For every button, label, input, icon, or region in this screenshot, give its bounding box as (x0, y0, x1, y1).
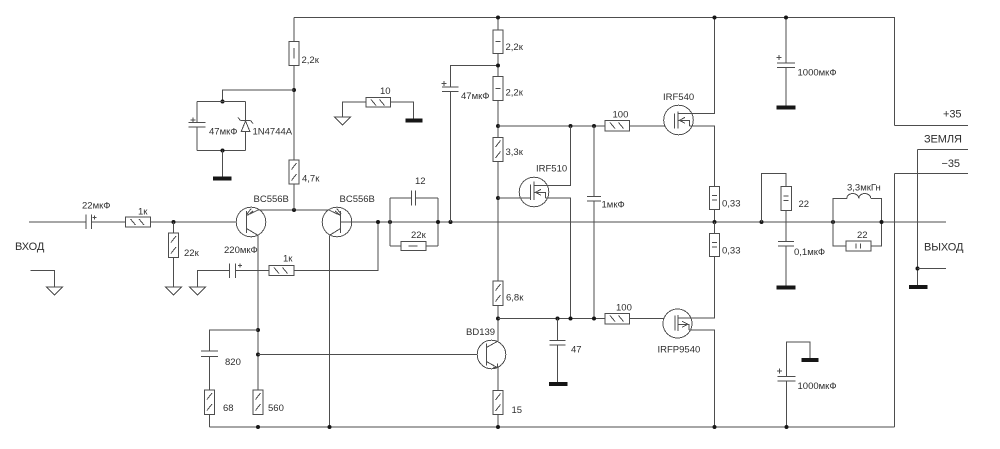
node zobel junction (760, 220, 764, 224)
svg-text:ВЫХОД: ВЫХОД (924, 242, 964, 254)
wire Q2 collector (329, 235, 331, 427)
node 1мкФ top tap (592, 124, 596, 128)
wire zener box loop (197, 102, 246, 151)
svg-text:1000мкФ: 1000мкФ (798, 68, 837, 79)
wire BD139 base (258, 354, 487, 356)
resistor 22 zobel (781, 187, 809, 211)
svg-text:BD139: BD139 (466, 327, 495, 338)
transistor Q5 BD139 (466, 327, 506, 369)
wire 498 chain top (497, 18, 499, 31)
svg-text:1к: 1к (283, 254, 293, 265)
wire 68 to bottom rail (209, 415, 211, 428)
resistor 68 (205, 390, 234, 415)
svg-text:15: 15 (512, 405, 523, 416)
resistor 2,2к lower (493, 77, 524, 101)
wire 820 stub (210, 330, 259, 351)
inductor 3,3мкГн (833, 183, 882, 223)
node 47мкФ riser junction (449, 220, 453, 224)
node 15 bottom rail (496, 425, 500, 429)
wire zobel riser (762, 174, 787, 223)
wire between 2,2к resistors (497, 54, 499, 77)
wire 15 to bottom rail (497, 415, 499, 428)
wire bottom -35 rail (210, 426, 895, 428)
resistor 2,2к upper (493, 30, 524, 54)
svg-text:220мкФ: 220мкФ (224, 245, 258, 256)
node -35 terminal line (895, 173, 969, 175)
svg-text:47мкФ: 47мкФ (209, 127, 237, 138)
svg-text:22мкФ: 22мкФ (82, 201, 110, 212)
wire ground rail vertical (917, 150, 919, 286)
node RC combo left (388, 220, 392, 224)
wire 22к to ground (173, 258, 175, 288)
capacitor 12 (390, 176, 438, 206)
wire 4,7к to emitter rail (293, 184, 295, 210)
node 820 tap (256, 328, 260, 332)
svg-text:2,2к: 2,2к (506, 42, 524, 53)
resistor 1к input (126, 207, 151, 228)
resistor 1к feedback (269, 254, 294, 276)
node output ground junction (916, 267, 920, 271)
node inductor right (880, 220, 884, 224)
transistor Q1 BC556B (236, 194, 289, 237)
wire 3,3к to 6,8к (497, 162, 499, 282)
svg-text:4,7к: 4,7к (302, 174, 320, 185)
wire 820 to 68 (209, 357, 211, 391)
ground bar 1000мкФ lower (802, 358, 819, 362)
svg-text:IRFP9540: IRFP9540 (658, 345, 701, 356)
node zener tap (292, 88, 296, 92)
wire 1к fb to main node (294, 222, 378, 271)
node output junction (713, 220, 717, 224)
capacitor 47 (550, 319, 582, 383)
svg-text:3,3мкГн: 3,3мкГн (847, 183, 881, 194)
ground bar 1000мкФ upper (777, 106, 796, 110)
node upper gate rail tap (496, 124, 500, 128)
svg-text:0,1мкФ: 0,1мкФ (794, 247, 825, 258)
wire zener tap (223, 90, 295, 102)
node 560 bottom (256, 425, 260, 429)
node ЗЕМЛЯ terminal line (918, 149, 969, 151)
resistor 15 (493, 391, 522, 417)
svg-text:100: 100 (613, 110, 629, 121)
node BD139 base tap (256, 353, 260, 357)
svg-text:47мкФ: 47мкФ (461, 91, 489, 102)
ground bar 47 (549, 382, 568, 386)
node 498 top rail (496, 16, 500, 20)
svg-text:100: 100 (616, 303, 632, 314)
wire upper gate rail (498, 125, 605, 127)
wire 10 right to ground (391, 102, 414, 119)
resistor 22к input (169, 222, 200, 259)
resistor 100 lower (605, 303, 632, 325)
resistor 22 output (833, 222, 882, 251)
node input junction (172, 220, 176, 224)
wire Q1 collector (257, 235, 259, 390)
node IRF540 drain top rail (713, 16, 717, 20)
node IRFP9540 source bottom rail (713, 425, 717, 429)
ground triangle 10 (335, 117, 351, 125)
svg-text:ЗЕМЛЯ: ЗЕМЛЯ (924, 134, 962, 146)
wire top +35 rail (294, 17, 895, 19)
svg-text:BC556B: BC556B (340, 194, 375, 205)
node zener box bottom (221, 149, 225, 153)
svg-text:820: 820 (225, 357, 241, 368)
node inductor left (831, 220, 835, 224)
node 1мкФ bottom tap (592, 317, 596, 321)
capacitor 1мкФ (587, 126, 625, 319)
resistor 560 (253, 390, 284, 415)
node lower gate rail tap (496, 317, 500, 321)
svg-text:−35: −35 (942, 158, 960, 170)
svg-text:1N4744A: 1N4744A (253, 127, 293, 138)
ground triangle 22к (166, 287, 182, 295)
capacitor 0,1мкФ (778, 211, 825, 286)
capacitor 220мкФ (224, 245, 258, 278)
transistor Q2 BC556B (322, 194, 375, 237)
resistor 4,7к (289, 160, 320, 185)
resistor 6,8к (493, 281, 524, 306)
node IRF510 gate tap (496, 196, 500, 200)
wire RC combo left risers (389, 198, 391, 246)
svg-text:1мкФ: 1мкФ (602, 200, 625, 211)
resistor 0,33 upper (710, 187, 741, 210)
ground bar 0,1мкФ (777, 286, 796, 290)
capacitor C 22мкФ input (82, 201, 110, 230)
node RC combo right (436, 220, 440, 224)
transistor Q4 IRFP9540 (658, 256, 715, 427)
wire 220мкФ to 1к fb (236, 270, 270, 272)
wire box bottom to ground (222, 151, 224, 177)
wire feedback ground riser (198, 271, 230, 288)
wire 100 to IRFP9540 gate (630, 318, 676, 320)
resistor 3,3к (493, 138, 524, 162)
node 1000мкФ top rail (784, 16, 788, 20)
wire cap to R1 (92, 221, 126, 223)
svg-text:22к: 22к (411, 230, 427, 241)
wire 2,2к to 3,3к (497, 101, 499, 138)
wire input ground stub (31, 271, 55, 288)
node +35 terminal line (895, 125, 969, 127)
resistor 22к parallel (390, 230, 438, 251)
svg-text:0,33: 0,33 (722, 199, 741, 210)
wire +35 drop to terminal (894, 18, 896, 126)
ground triangle feedback (190, 287, 206, 295)
svg-text:2,2к: 2,2к (506, 88, 524, 99)
node feedback junction (376, 220, 380, 224)
svg-text:1000мкФ: 1000мкФ (798, 381, 837, 392)
wire 2,2к left to 4,7к (293, 66, 295, 161)
node 47мкФ tap (496, 64, 500, 68)
svg-text:22: 22 (799, 199, 810, 210)
ground bar zener box (213, 177, 232, 181)
svg-text:3,3к: 3,3к (506, 147, 524, 158)
svg-text:68: 68 (223, 403, 234, 414)
svg-text:560: 560 (268, 403, 284, 414)
ground bar 10 (406, 119, 423, 123)
capacitor 1000мкФ lower (777, 342, 837, 427)
capacitor 820 (201, 351, 241, 368)
wire 100 to IRF540 gate (630, 125, 675, 127)
svg-text:2,2к: 2,2к (302, 55, 320, 66)
transistor U1 IRF510 (498, 126, 571, 319)
diode zener 1N4744A (238, 118, 293, 138)
resistor 2,2к left (289, 42, 320, 67)
capacitor 47мкФ mid (442, 66, 499, 223)
svg-text:BC556B: BC556B (254, 194, 289, 205)
wire emitter rail (259, 209, 329, 211)
svg-text:+35: +35 (943, 109, 961, 121)
svg-text:12: 12 (415, 176, 426, 187)
wire 6,8к to BD139 collector (497, 306, 499, 342)
svg-text:6,8к: 6,8к (506, 293, 524, 304)
node 47 cap tap (556, 317, 560, 321)
svg-text:1к: 1к (138, 207, 148, 218)
wire Q2 base to feedback node (341, 221, 947, 223)
wire 0,33 lower to IRFP9540 drain (714, 257, 716, 318)
resistor 10 (366, 86, 391, 107)
svg-text:47: 47 (571, 345, 582, 356)
transistor Q3 IRF540 (663, 18, 715, 187)
svg-text:IRF540: IRF540 (663, 92, 694, 103)
svg-text:0,33: 0,33 (722, 246, 741, 257)
svg-text:22к: 22к (184, 248, 200, 259)
wire -35 drop to bottom rail (894, 174, 896, 428)
wire 10 left to ground (343, 102, 367, 117)
node Q2 collector bottom (328, 425, 332, 429)
wire output ground stub (918, 268, 947, 270)
wire input line (29, 221, 86, 223)
capacitor 47мкФ zener box (189, 117, 238, 137)
wire BD139 emitter to 15 (497, 368, 499, 391)
svg-text:IRF510: IRF510 (536, 164, 567, 175)
resistor 0,33 lower (710, 222, 741, 257)
resistor 100 upper (605, 110, 630, 132)
wire R1 to Q1 base (151, 221, 247, 223)
wire RC combo right riser (437, 198, 439, 246)
wire lower gate rail (498, 318, 605, 320)
node zener box top (221, 100, 225, 104)
node IRF510 drain tap (569, 124, 573, 128)
capacitor 1000мкФ upper (777, 18, 837, 106)
node 1000мкФ bottom rail (785, 425, 789, 429)
svg-text:ВХОД: ВХОД (15, 241, 45, 253)
svg-text:22: 22 (857, 230, 868, 241)
ground triangle input (47, 287, 63, 295)
wire top rail to 2,2к left (293, 18, 295, 42)
wire 0,33 upper to output node (714, 210, 716, 223)
node IRF510 source tap (569, 317, 573, 321)
svg-text:10: 10 (380, 86, 391, 97)
ground bar output (909, 285, 928, 289)
node emitter rail junction (292, 208, 296, 212)
